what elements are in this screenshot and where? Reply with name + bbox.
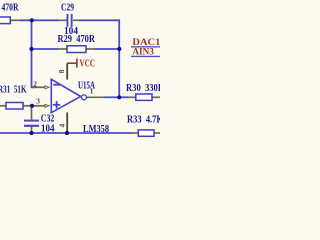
svg-text:R33 4.7K: R33 4.7K [127, 114, 160, 125]
svg-text:3: 3 [36, 96, 40, 105]
svg-text:104: 104 [41, 123, 55, 134]
svg-text:AIN3: AIN3 [132, 48, 154, 58]
svg-text:C29: C29 [61, 3, 74, 14]
svg-text:LM358: LM358 [83, 124, 109, 135]
svg-text:2: 2 [33, 80, 37, 89]
svg-text:R29 470R: R29 470R [58, 34, 96, 45]
svg-text:8: 8 [57, 69, 66, 73]
svg-text:DAC1: DAC1 [132, 38, 160, 48]
svg-text:VCC: VCC [80, 58, 96, 69]
svg-text:R30 330R: R30 330R [126, 83, 160, 94]
svg-text:R31 51K: R31 51K [0, 85, 27, 96]
svg-text:470R: 470R [2, 3, 20, 14]
svg-text:1: 1 [90, 86, 94, 95]
svg-text:4: 4 [58, 124, 67, 128]
